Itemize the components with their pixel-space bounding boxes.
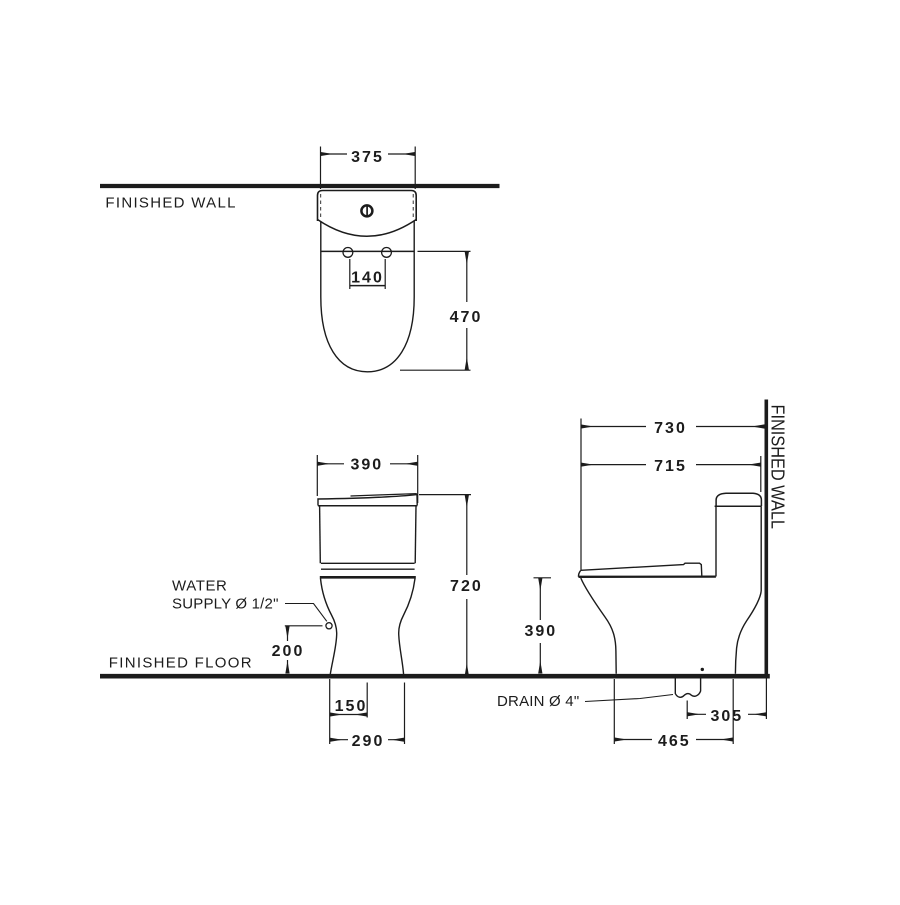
tank bottom joint line 1 (front view): [321, 562, 415, 564]
dimension 140 extension line left: [349, 259, 351, 289]
svg-text:390: 390: [350, 456, 383, 473]
svg-text:150: 150: [335, 698, 368, 715]
tank lid side dashes left: [320, 194, 322, 218]
dimension 305 line with arrows: [687, 713, 766, 715]
dimension 200 vertical line with arrows: [287, 626, 289, 673]
tank lid top edge (front view): [351, 494, 417, 496]
tank back side (side view): [760, 506, 762, 591]
svg-text:465: 465: [658, 733, 691, 750]
drain leader line: [585, 695, 673, 702]
svg-text:200: 200: [272, 643, 305, 660]
bowl outline (plan view): [321, 221, 414, 372]
tank lid (side view): [716, 493, 761, 506]
dimension 290 extension line right: [404, 683, 406, 745]
finished wall line (side view): [764, 400, 768, 679]
finished floor line: [100, 674, 770, 679]
pedestal left side (front view): [321, 579, 337, 677]
dimension 390 vertical line with arrows (side view): [539, 578, 541, 673]
dimension 730/715 extension line left: [580, 419, 582, 571]
dimension 150 line with arrows: [330, 714, 368, 716]
dimension 720 top extension line: [419, 494, 471, 496]
tank lid side dashes right: [412, 194, 414, 218]
tank lid bottom line (side view): [715, 505, 762, 507]
tank lid front curve (plan view): [318, 220, 417, 237]
drain pipe (side view): [675, 678, 700, 697]
dimension 465 line with arrows: [614, 739, 733, 741]
dimension 390 extension line right: [417, 455, 419, 503]
dimension 465 extension line left: [613, 679, 615, 744]
drain center mark dot: [701, 668, 704, 671]
dimension 390 top tick (side view): [534, 577, 552, 579]
svg-text:715: 715: [654, 458, 687, 475]
dimension 290 line with arrows: [330, 739, 405, 741]
svg-text:375: 375: [351, 149, 384, 166]
water supply inlet circle: [326, 623, 332, 629]
svg-text:DRAIN Ø 4": DRAIN Ø 4": [497, 693, 579, 710]
tank (plan view): [318, 191, 417, 222]
tank body left side (front view): [319, 506, 322, 564]
dimension 305 extension line left (drain centerline): [686, 701, 688, 720]
seat back edge (plan view): [321, 250, 414, 252]
dimension 390 line with arrows: [317, 463, 417, 465]
dimension 200 top tick: [285, 625, 323, 627]
dimension 375 extension line right: [414, 147, 416, 190]
dimension 375 extension line left: [320, 147, 322, 190]
seat front tip (side view): [578, 570, 580, 577]
seat bottom line (side view): [579, 575, 716, 578]
flush button circle: [361, 205, 372, 216]
bowl rear profile (side view): [735, 591, 761, 674]
svg-text:WATER: WATER: [172, 578, 228, 595]
tank front side (side view): [715, 506, 717, 576]
finished wall line (plan view): [100, 184, 500, 188]
bowl front profile (side view): [581, 578, 616, 674]
dimension 290 extension line left: [329, 679, 331, 744]
svg-text:305: 305: [710, 708, 743, 725]
svg-text:290: 290: [352, 733, 385, 750]
svg-text:FINISHED FLOOR: FINISHED FLOOR: [109, 655, 253, 672]
svg-text:730: 730: [654, 420, 687, 437]
seat hinge circle right: [382, 248, 392, 258]
pedestal right side (front view): [399, 579, 415, 677]
svg-text:720: 720: [450, 578, 483, 595]
svg-text:470: 470: [450, 309, 483, 326]
svg-text:FINISHED WALL: FINISHED WALL: [768, 405, 788, 530]
dimension 470 vertical line with arrows: [466, 252, 468, 370]
tank lid (front view): [318, 495, 417, 506]
dimension 465 extension line right: [732, 679, 734, 744]
dimension 140 line: [350, 285, 385, 287]
dimension 140 extension line right: [384, 259, 386, 289]
dimension 715 extension line right: [760, 456, 762, 492]
dimension 150 extension line right (centerline): [366, 683, 368, 718]
seat (side view): [581, 563, 702, 575]
dimension 720 vertical line with arrows: [466, 495, 468, 675]
seat hinge circle left: [343, 248, 353, 258]
svg-text:140: 140: [351, 270, 384, 287]
tank body right side (front view): [414, 506, 417, 564]
water supply leader line: [285, 604, 327, 622]
tank lid bottom line (front view): [318, 505, 417, 507]
svg-text:SUPPLY Ø 1/2": SUPPLY Ø 1/2": [172, 596, 279, 613]
dimension 715 line with arrows: [581, 464, 761, 466]
dimension 730 line with arrows: [581, 426, 764, 428]
dimension 305 wall extension below floor: [765, 678, 767, 719]
flush button inner detail: [366, 206, 368, 215]
dimension 470 bottom extension line: [400, 369, 471, 371]
svg-text:390: 390: [524, 623, 557, 640]
svg-text:FINISHED WALL: FINISHED WALL: [105, 194, 236, 211]
tank bottom joint line 2 (front view): [321, 568, 415, 570]
dimension 375 line with arrows: [321, 153, 416, 155]
dimension 390 extension line left: [316, 455, 318, 496]
dimension 470 top extension line: [418, 250, 471, 252]
seat edge thick line (front view): [320, 576, 416, 579]
